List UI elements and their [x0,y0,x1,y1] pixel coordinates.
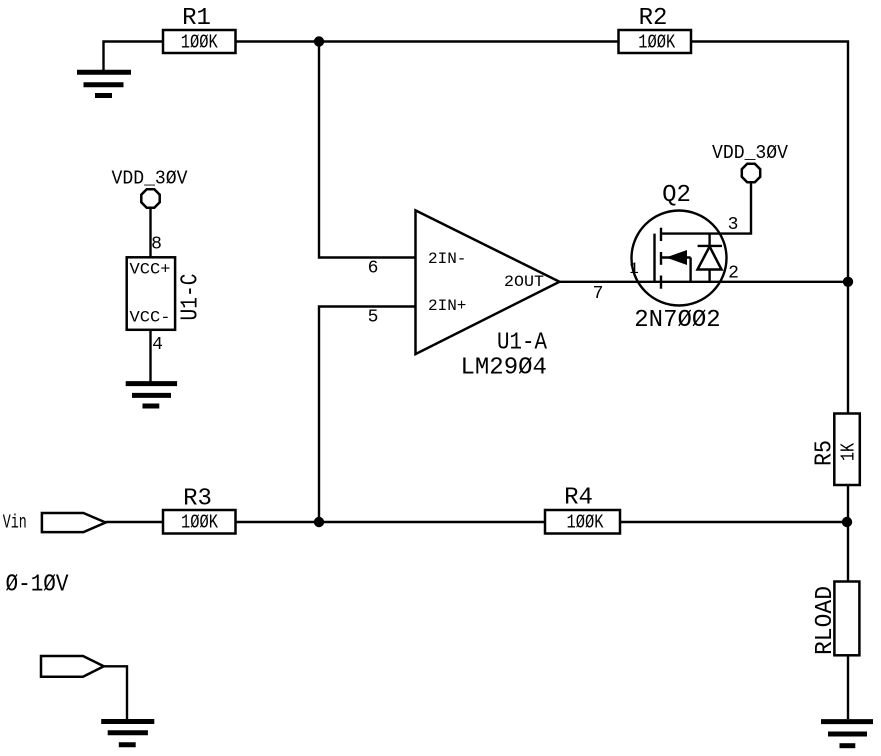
wire output pin 7 [560,281,849,283]
svg-text:VCC+: VCC+ [130,261,171,279]
ground [77,72,131,95]
transistor Q2 [629,182,739,334]
resistor R1 [163,5,236,54]
svg-text:2N7ØØ2: 2N7ØØ2 [634,307,720,334]
ground [821,722,873,746]
svg-text:8: 8 [151,235,162,255]
op-amp U1-A [416,210,560,381]
svg-text:U1-C: U1-C [178,274,205,321]
resistor R5 [812,414,860,486]
svg-text:4: 4 [152,335,163,355]
wire [661,183,751,234]
resistor R4 [545,485,620,534]
node junction R4/R5 [842,517,852,527]
svg-text:2OUT: 2OUT [504,273,544,291]
svg-text:1ØØK: 1ØØK [567,512,604,534]
svg-text:R1: R1 [182,5,211,32]
svg-text:R2: R2 [639,5,668,32]
ground [126,384,177,406]
svg-text:2IN+: 2IN+ [428,297,466,315]
wire [847,485,849,582]
svg-text:R5: R5 [812,440,839,466]
connector flag ground input [41,656,104,677]
wire [149,208,151,258]
wire [319,42,416,258]
resistor R2 [619,5,692,54]
gate bar [653,234,655,282]
svg-text:U1-A: U1-A [497,330,548,357]
svg-text:1K: 1K [838,443,860,461]
svg-text:R4: R4 [564,485,593,512]
resistor RLOAD [812,582,859,656]
power VDD_30V left [112,168,189,208]
channel bar segments [660,228,662,241]
wire [319,307,416,523]
svg-text:VDD_3ØV: VDD_3ØV [112,168,189,190]
body diode [708,234,710,246]
svg-text:1ØØK: 1ØØK [181,512,218,534]
svg-text:3: 3 [728,215,739,235]
wire [106,521,163,523]
wire [104,666,127,719]
svg-text:Ø-1ØV: Ø-1ØV [6,572,70,599]
node junction bottom [314,517,324,527]
svg-text:1ØØK: 1ØØK [181,32,218,54]
svg-text:LM29Ø4: LM29Ø4 [461,355,547,382]
svg-text:1: 1 [629,260,639,278]
svg-text:VCC-: VCC- [130,308,171,326]
ground [101,722,154,745]
node junction top [314,36,324,46]
power VDD_30V right [712,142,789,182]
svg-text:RLOAD: RLOAD [812,586,839,655]
svg-text:2: 2 [728,264,739,284]
wire [236,521,546,523]
wire [847,655,849,719]
svg-text:1ØØK: 1ØØK [638,32,675,54]
connector flag Vin [42,513,106,532]
svg-text:Vin: Vin [3,512,27,534]
op-amp power unit U1-C [127,257,205,330]
wire [236,40,619,42]
svg-text:7: 7 [593,284,604,304]
svg-text:R3: R3 [183,486,212,513]
wire [104,42,164,71]
wire [149,330,151,382]
svg-text:5: 5 [368,308,379,328]
bulk to source [689,258,691,282]
svg-text:6: 6 [368,259,379,279]
svg-text:VDD_3ØV: VDD_3ØV [712,142,789,164]
svg-text:2IN-: 2IN- [428,250,466,268]
wire [691,42,848,414]
bulk arrow [661,256,691,258]
svg-text:Q2: Q2 [662,182,691,209]
node junction right on output [843,277,853,287]
resistor R3 [163,486,236,534]
wire [620,521,848,523]
